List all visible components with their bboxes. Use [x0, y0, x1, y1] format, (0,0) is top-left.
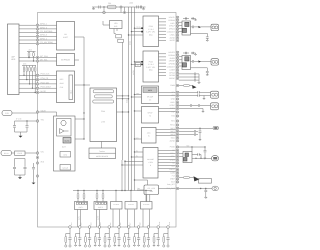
wires U11 outputs: [159, 91, 176, 93]
svg-text:GPIOA: GPIOA: [169, 71, 175, 74]
wires K5 down to bus: [142, 210, 144, 228]
wires into block Q1/Q2: [179, 21, 182, 23]
wire mic1 to connector: [179, 127, 213, 129]
capacitor C7 bulk: [24, 159, 26, 167]
ground above block Q3/Q4: [195, 53, 197, 54]
pin Q44 GAIN on module right edge: [176, 171, 178, 173]
module M1 compute module: [90, 88, 117, 142]
svg-text:AGND: AGND: [170, 36, 176, 39]
svg-text:COMOUT: COMOUT: [167, 31, 176, 34]
svg-text:XTL_OSC: XTL_OSC: [147, 187, 155, 190]
wires K2 down to bus: [96, 210, 98, 228]
wires into block Q3/Q4: [179, 56, 182, 58]
wire K3 up: [115, 191, 117, 202]
resistor R3 pullup: [23, 66, 25, 68]
svg-text:3V3: 3V3: [41, 160, 44, 163]
svg-text:PCM_DIN: PCM_DIN: [41, 81, 50, 84]
pin Q43 FAULT on module right edge: [176, 168, 178, 170]
capacitor C18 mic3: [179, 134, 195, 136]
pin header P2 on module left edge: [36, 28, 39, 31]
svg-text:PCM: PCM: [149, 25, 153, 28]
IC U11 headphone amp: [142, 86, 159, 104]
pin Q46 VREF on module right edge: [176, 178, 178, 180]
pin Q8 AGND on module right edge: [176, 36, 178, 38]
wires U9 outputs: [159, 18, 167, 20]
junction JB3 on bottom bus: [88, 226, 91, 229]
test point circle cell 1: [69, 245, 71, 247]
capacitor C16 mic1: [199, 128, 201, 130]
svg-text:UOUTL: UOUTL: [169, 16, 175, 19]
wire DC to fuse: [12, 152, 15, 154]
wire M1 right pin 1 to bus: [117, 95, 129, 97]
svg-text:VSEL: VSEL: [170, 101, 175, 104]
resistor R8 pwm: [179, 85, 184, 87]
pin Q3 LHPL on module right edge: [176, 22, 178, 24]
svg-text:RHPR: RHPR: [170, 57, 176, 60]
ground G11: [205, 197, 208, 198]
svg-text:GPIO_3: GPIO_3: [40, 34, 47, 37]
pin Q35 AGND on module right edge: [176, 140, 178, 142]
pin Q1 UOUTL on module right edge: [176, 16, 178, 18]
drops to connector block 2 resistors: [96, 190, 97, 191]
wires K3 down to bus: [112, 210, 114, 228]
wire osc to clock buffer b: [149, 195, 151, 202]
pin header P12 on module left edge: [36, 87, 39, 90]
arrow marker A2 filled: [194, 176, 200, 181]
pin P_3V3 left: [36, 162, 38, 164]
wire M1 to interface board: [101, 142, 103, 149]
audio jack J6 headphone: [211, 91, 219, 98]
svg-text:(T1_EN/TRIM): (T1_EN/TRIM): [40, 30, 53, 33]
svg-text:PCM_DOUT: PCM_DOUT: [41, 86, 52, 89]
capacitor C5 input: [26, 121, 28, 125]
capacitor C19 speaker: [192, 154, 198, 156]
test point circle cell 11: [167, 245, 169, 247]
IC U14 speaker amp: [143, 148, 158, 179]
svg-text:I2C_SDA: I2C_SDA: [40, 55, 49, 58]
module outline (main board block): [38, 13, 177, 228]
connector block K2: [94, 202, 107, 210]
ferrite bead FB1: [108, 5, 117, 9]
capacitor C11 gpio filter: [179, 73, 194, 75]
wire M1 right pin to bus: [117, 111, 129, 113]
pin Q9 MUTE on module right edge: [176, 39, 178, 41]
wire J1 signal PCM_FS: [19, 79, 57, 81]
svg-text:FB1: FB1: [108, 2, 111, 5]
svg-text:HDR: HDR: [11, 58, 16, 61]
wires bus to U14: [135, 151, 144, 153]
rail 3V3 for I2C pullups: [27, 51, 36, 53]
pin Q19 GPIOC on module right edge: [176, 77, 178, 79]
IC U4 audio codec block: [57, 71, 75, 103]
wire fuse to pin: [25, 152, 38, 154]
decoupling cell 8: resistor: [134, 233, 138, 235]
capacitor C12 gpio filter: [179, 76, 194, 78]
decoupling cell 10: capacitor: [157, 238, 160, 239]
pin Q18 GPIOB on module right edge: [176, 74, 178, 76]
decoupling cell 11: resistor: [164, 233, 168, 235]
IC U6 charger: [60, 152, 71, 158]
wires K4 down to bus: [127, 210, 129, 228]
transistor pair block Q3/Q4: [182, 56, 191, 70]
pin Q45 FLT on module right edge: [176, 175, 178, 177]
ground above block Q1/Q2: [195, 19, 197, 20]
svg-text:5.1P T 2P1: 5.1P T 2P1: [146, 66, 155, 69]
svg-text:EEPROM: EEPROM: [61, 58, 70, 61]
IC U3 EEPROM: [57, 54, 75, 66]
capacitor C14 spdif: [179, 105, 191, 107]
pin P7 SDA: [36, 56, 39, 59]
IC U10 DAC2: [143, 51, 159, 82]
wires U13 right: [156, 129, 176, 131]
svg-text:AGND: AGND: [170, 139, 176, 142]
pin P_GND left: [36, 156, 38, 158]
pin Q12 RHPR on module right edge: [176, 57, 178, 59]
pin Q30 RSV2 on module right edge: [176, 124, 178, 126]
pin Q40 GND3 on module right edge: [176, 158, 178, 160]
svg-text:(T1_A/N TRIM): (T1_A/N TRIM): [40, 41, 53, 44]
connector row 2 on M1: [95, 95, 113, 98]
tiny label box at U10 input: [135, 63, 140, 67]
decoupling cell 4: wire: [98, 228, 100, 237]
wire J1 signal (T1_A/N TRIM): [19, 43, 57, 45]
wire U2 output to vertical bus: [75, 37, 85, 139]
pin Q17 GPIOA on module right edge: [176, 71, 178, 73]
decoupling cell 10: resistor: [154, 233, 158, 235]
svg-text:SPKLP: SPKLP: [169, 25, 176, 28]
resistor R9 gain: [179, 177, 184, 179]
output wire with capacitor Q3/Q4: [191, 60, 193, 62]
audio jack for Q3/Q4: [211, 59, 219, 65]
audio jack for Q1/Q2: [211, 24, 219, 30]
pin header P3 on module left edge: [36, 31, 39, 34]
decoupling cell 1: resistor: [66, 233, 70, 235]
ground G1 on top rail: [93, 7, 95, 9]
wires bus to U11: [135, 94, 142, 96]
svg-text:PWM: PWM: [170, 84, 175, 87]
decoupling cell 3: wire: [89, 228, 91, 237]
pin header P1 on module left edge: [36, 24, 39, 27]
capacitor above block Q1/Q2: [183, 18, 189, 20]
svg-text:5 V IN: 5 V IN: [16, 118, 22, 121]
pin Q20 PWM on module right edge: [176, 84, 178, 86]
decoupling cell 9: resistor: [144, 233, 148, 235]
drops to connector block 1 resistors: [77, 190, 78, 191]
jack J7 spdif: [211, 103, 219, 110]
svg-text:3V3: 3V3: [29, 48, 32, 51]
pin Q33 MIC3 on module right edge: [176, 133, 178, 135]
wire J1 signal PCM_DOUT: [19, 87, 57, 89]
rail 3V3 for PCM pullups: [22, 65, 36, 67]
pin Q41 SD on module right edge: [176, 162, 178, 164]
wire LDO down pins: [113, 29, 115, 34]
svg-text:MICRO BOARD: MICRO BOARD: [96, 155, 109, 158]
pin header P5 on module left edge: [36, 39, 39, 42]
wire K5 up: [145, 191, 147, 202]
capacitor C21 clk: [205, 189, 207, 190]
connector J1 40-pin GPIO header: [8, 24, 20, 95]
svg-text:LHPL: LHPL: [170, 22, 175, 25]
resistor R11: [83, 194, 85, 199]
wire J1 signal PCM_CLK: [19, 74, 57, 76]
wire J1 signal GPIO_4: [19, 39, 57, 41]
decoupling cell 2: wire: [79, 228, 81, 237]
decoupling cell 2: resistor: [76, 233, 80, 235]
decoupling cell 3: capacitor: [88, 238, 91, 239]
wires bus to U13: [135, 138, 142, 140]
wire drop1 to amp input: [125, 161, 143, 163]
connector J3 DC power jack: [1, 151, 12, 156]
wire table box drop 1: [121, 160, 123, 191]
pin Q7 LINEL on module right edge: [176, 34, 178, 36]
pin Q27 TXP on module right edge: [176, 111, 178, 113]
IC U7 monitor: [60, 165, 71, 171]
vertical rail x122 from LDO to bottom: [122, 43, 124, 161]
svg-text:5.1P T 2P1: 5.1P T 2P1: [146, 31, 155, 34]
svg-text:HPL: HPL: [171, 91, 175, 94]
decoupling cell 5: resistor: [105, 233, 109, 235]
battery holder circle: [57, 119, 72, 137]
capacitor C13 gpio filter: [179, 79, 194, 81]
svg-text:L306: L306: [129, 1, 133, 4]
junction dot bus: [83, 84, 84, 85]
junction dot bus2: [83, 112, 84, 113]
IC U2 level shifter: [57, 22, 75, 51]
wires bus to U12: [135, 110, 142, 112]
pin header P4 on module left edge: [36, 35, 39, 38]
pin Q28 TXN on module right edge: [176, 115, 178, 117]
resistor R4 pullup: [26, 66, 28, 68]
test point circle cell 5: [108, 245, 110, 247]
wire I2C SDA: [19, 57, 57, 59]
decoupling cell 11: wire: [167, 228, 169, 237]
decoupling cell 11: capacitor: [166, 238, 169, 239]
svg-text:MUTE: MUTE: [41, 90, 47, 93]
clock buffer box K5: [141, 202, 153, 210]
connector oval J8 speaker: [212, 156, 219, 161]
capacitor C15 spdif: [198, 104, 199, 107]
wire U4 output: [75, 84, 91, 86]
ground cell 2: [79, 245, 81, 246]
pin Q13 SPKRP on module right edge: [176, 60, 178, 62]
ground G6: [198, 74, 200, 80]
pin Q32 MIC2 on module right edge: [176, 130, 178, 132]
wire J1 signal GPIO_2: [19, 28, 57, 30]
svg-text:3V3: 3V3: [114, 25, 117, 28]
wire bulk cap join: [15, 174, 26, 176]
decoupling cell 1: capacitor: [68, 238, 71, 239]
junction JB10 on bottom bus: [157, 226, 160, 229]
pin Q29 RSV on module right edge: [176, 120, 178, 122]
transistor pair block Q5/Q6 speaker: [183, 152, 192, 163]
svg-text:PVDD: PVDD: [170, 146, 176, 149]
pin on module edge x124.5: [123, 11, 125, 13]
capacitor C8: [33, 163, 35, 167]
junction JB7 on bottom bus: [128, 226, 131, 229]
wire osc enable to bus: [135, 180, 148, 185]
wire HPR to jack: [179, 95, 198, 97]
svg-text:3V3: 3V3: [23, 62, 26, 65]
svg-text:GND3: GND3: [170, 158, 175, 161]
pin Q10 UOUTR on module right edge: [176, 51, 178, 53]
ground cell 4: [98, 245, 100, 246]
decoupling cell 7: capacitor: [127, 238, 130, 239]
capacitor C17 mic2: [179, 130, 195, 132]
pin header P10 on module left edge: [36, 78, 39, 81]
pin Q39 SPK- on module right edge: [176, 155, 178, 157]
svg-text:FAULT: FAULT: [169, 168, 175, 171]
wire J1 signal GPIO_1: [19, 24, 57, 26]
wire OTG VBUS: [12, 112, 38, 114]
svg-text:LDO: LDO: [114, 22, 118, 25]
power section outline: [54, 116, 76, 171]
svg-text:GPIOC: GPIOC: [169, 77, 175, 80]
ground cell 6: [118, 245, 120, 246]
pin Q21 HPL on module right edge: [176, 91, 178, 93]
junction JB4 on bottom bus: [98, 226, 101, 229]
pin Q15 COMOUT on module right edge: [176, 66, 178, 68]
IC U8 LDO 3V3: [110, 21, 123, 29]
wire LDO input: [103, 24, 110, 26]
decoupling cell 6: resistor: [115, 233, 119, 235]
ground cell 8: [137, 245, 139, 246]
ground G5 filled: [32, 183, 36, 185]
connector row 1 on M1: [93, 90, 113, 93]
pin Q34 BIAS on module right edge: [176, 136, 178, 138]
svg-text:MIC1: MIC1: [171, 127, 175, 130]
wire K4 up: [130, 191, 132, 202]
top power rail 5V: [92, 6, 146, 8]
wire clk out: [179, 188, 212, 190]
decoupling cell 6: capacitor: [117, 238, 120, 239]
decoupling cell 8: wire: [138, 228, 140, 237]
resistor R5 pullup: [29, 66, 31, 68]
svg-text:3.3: 3.3: [149, 99, 151, 102]
pin Q24 VSEL on module right edge: [176, 101, 178, 103]
power bus 3V3 vertical: [131, 7, 133, 191]
decoupling cell 4: capacitor: [98, 238, 101, 239]
capacitor C6 bulk: [15, 158, 26, 160]
power bus 5V0 vertical: [128, 7, 130, 191]
decoupling cell 8: capacitor: [137, 238, 140, 239]
svg-text:Gain_SET: Gain_SET: [167, 183, 175, 186]
wire speaker out: [192, 157, 212, 159]
pin P_VIN on module top edge: [103, 11, 106, 14]
svg-text:GPIO_2: GPIO_2: [40, 26, 47, 29]
arrow marker Q3/Q4: [198, 60, 201, 62]
pin Q26 GND2 on module right edge: [176, 107, 178, 109]
interface table box: [89, 148, 116, 159]
svg-text:GPIO_1: GPIO_1: [40, 23, 47, 26]
svg-text:UOUTR: UOUTR: [168, 51, 175, 54]
wire 5V input node: [15, 120, 38, 122]
decoupling cell 5: wire: [108, 228, 110, 237]
wire VBUS to power box: [39, 112, 57, 116]
wire drop2 to amp input: [122, 164, 143, 166]
wire HPL to jack: [179, 91, 198, 93]
junction JB2 on bottom bus: [79, 226, 82, 229]
pin Q38 SPK+ on module right edge: [176, 152, 178, 154]
stub EEPROM right pin: [75, 59, 80, 61]
wires into speaker block: [179, 152, 183, 154]
transistor pair block Q1/Q2: [182, 21, 191, 35]
svg-text:BATT: BATT: [62, 146, 66, 149]
resistor R1 I2C pullup: [28, 51, 30, 54]
resistor R7 pullup: [34, 66, 36, 68]
svg-text:4344: 4344: [60, 82, 64, 85]
decoupling cell 2: capacitor: [78, 238, 81, 239]
connector block K1: [75, 202, 88, 210]
wire from rail to module pin: [103, 7, 105, 13]
pin Q37 NC on module right edge: [176, 149, 178, 151]
wire power box to bus upper: [75, 118, 84, 120]
decoupling cell 3: resistor: [85, 233, 89, 235]
svg-text:SPDIF: SPDIF: [170, 104, 176, 107]
svg-text:DC IN: DC IN: [4, 152, 9, 155]
connector oval clk: [212, 186, 218, 190]
decoupling cell 5: capacitor: [108, 238, 111, 239]
decoupling cell 10: wire: [157, 228, 159, 237]
IC U9 DAC1: [143, 16, 159, 47]
pin Q4 SPKLP on module right edge: [176, 25, 178, 27]
wire pvdd: [179, 146, 205, 148]
svg-text:OTG: OTG: [5, 112, 9, 115]
svg-text:CREAM: CREAM: [168, 19, 175, 22]
svg-text:RSV2: RSV2: [170, 124, 175, 127]
wire spdif gnd: [179, 108, 203, 110]
svg-text:1 2 3 4: 1 2 3 4: [148, 63, 154, 66]
svg-text:GPIO_4: GPIO_4: [40, 37, 47, 40]
flat component box above clk wire: [198, 179, 211, 184]
capacitor C2 on top rail right: [137, 6, 138, 9]
decoupling cell 6: wire: [118, 228, 120, 237]
pin header P11 on module left edge: [36, 83, 39, 86]
connector oval GP1: [213, 126, 219, 129]
junction JB8 on bottom bus: [137, 226, 140, 229]
wires U14 right: [158, 150, 176, 152]
wire J1 signal GPIO_3: [19, 35, 57, 37]
arrow marker A1: [192, 85, 197, 89]
svg-text:GPIOB: GPIOB: [169, 74, 175, 77]
svg-text:LINEL: LINEL: [170, 33, 175, 36]
connector row 3 on M1: [93, 100, 114, 103]
junction JB9 on bottom bus: [147, 226, 150, 229]
lower wire with capacitor to ground Q1/Q2: [191, 32, 208, 34]
capacitor C1 on top rail: [99, 6, 100, 9]
power bus AVDD vertical: [134, 7, 136, 191]
pin Q31 MIC1 on module right edge: [176, 127, 178, 129]
svg-text:SPKLN: SPKLN: [169, 28, 176, 31]
wires U12 outputs: [159, 108, 176, 110]
decoupling cell 7: resistor: [125, 233, 129, 235]
svg-text:MIC2: MIC2: [171, 130, 175, 133]
pin Q47 BST on module right edge: [176, 181, 178, 183]
connector J2 USB OTG: [2, 111, 12, 116]
svg-text:CLK_OUT: CLK_OUT: [167, 187, 176, 190]
decoupling cell 9: capacitor: [147, 238, 150, 239]
pin Q48 CLK_OUT on module right edge: [176, 187, 178, 189]
svg-text:SPDIF: SPDIF: [148, 112, 153, 115]
svg-text:GND: GND: [171, 98, 176, 101]
svg-text:SPK+: SPK+: [170, 152, 175, 155]
pin header P9 on module left edge: [36, 74, 39, 77]
op-amp inside power box: [60, 129, 65, 134]
svg-text:SHIFT: SHIFT: [63, 36, 69, 39]
rail 3V3 bottom: [73, 190, 152, 192]
wire M1 right pin 2 to bus: [117, 98, 129, 100]
svg-text:HP AMP: HP AMP: [147, 96, 154, 99]
pin Q22 HPR on module right edge: [176, 94, 178, 96]
